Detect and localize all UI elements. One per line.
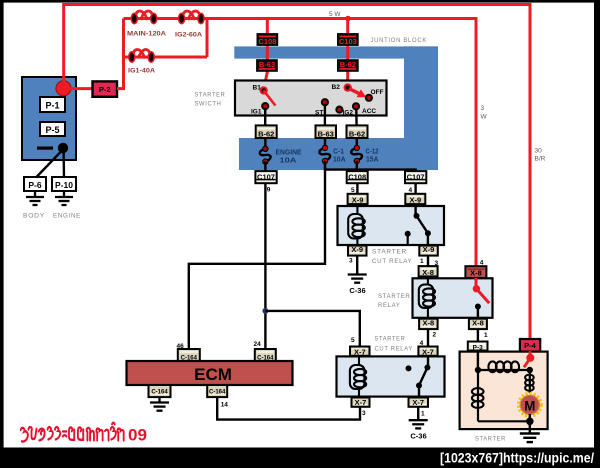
wire IG1 branch horizontal	[124, 56, 208, 59]
svg-text:X-9: X-9	[351, 245, 363, 254]
connector X-8 red	[465, 266, 486, 278]
svg-text:X-7: X-7	[412, 398, 424, 407]
svg-text:IG2: IG2	[343, 109, 354, 116]
wire battery+ to P-2	[70, 87, 93, 90]
connector P-5	[40, 122, 65, 136]
svg-text:B-63: B-63	[259, 60, 275, 69]
svg-text:1: 1	[484, 332, 488, 339]
svg-text:B-63: B-63	[318, 129, 334, 138]
svg-text:C108: C108	[258, 37, 276, 46]
svg-text:ST: ST	[315, 109, 323, 116]
wire ST to B-63	[324, 105, 326, 126]
wire drop to C108 and B1	[264, 19, 268, 91]
connector B-62 acc	[347, 125, 368, 138]
wire X-8 red to relay2 contact	[475, 278, 478, 289]
svg-text:C103: C103	[339, 37, 357, 46]
connector P-1	[40, 97, 65, 112]
ground C-36 relay3	[409, 420, 428, 428]
connector X-9 coil bottom	[348, 245, 367, 255]
svg-text:C107: C107	[407, 172, 425, 181]
connector P-10	[52, 177, 76, 191]
svg-text:STARTER: STARTER	[475, 436, 506, 443]
node battery positive terminal	[56, 81, 71, 96]
connector C108 top	[257, 34, 278, 46]
wire M to ground	[529, 414, 531, 434]
connector B-62 red	[338, 60, 359, 72]
svg-text:P-10: P-10	[55, 180, 73, 190]
relay 2 switch red blade	[476, 289, 489, 303]
junction block bus top band	[234, 46, 438, 58]
fuse C-1 10A	[319, 145, 330, 164]
svg-text:X-9: X-9	[409, 196, 421, 205]
svg-text:X-8: X-8	[422, 319, 434, 328]
svg-text:W: W	[481, 114, 488, 121]
fusible link MAIN-120A	[131, 11, 157, 24]
svg-text:IG1: IG1	[251, 108, 262, 115]
wire junction to X-7 pin5	[265, 311, 359, 347]
svg-text:1: 1	[420, 258, 424, 265]
connector X-8 switch bottom	[469, 319, 487, 330]
svg-text:STARTER: STARTER	[195, 92, 226, 99]
svg-text:C-164: C-164	[151, 389, 168, 395]
battery block	[22, 77, 76, 160]
svg-text:ACC: ACC	[362, 108, 376, 115]
svg-text:3: 3	[481, 105, 485, 112]
svg-text:X-8: X-8	[472, 319, 484, 328]
relay 2 coil	[419, 278, 435, 319]
wire relay1 blade to X-9	[427, 233, 429, 247]
wire C108 to X-9	[356, 183, 358, 194]
svg-text:5 W: 5 W	[329, 11, 341, 18]
wire top feed horizontal 30 B/R	[62, 3, 531, 6]
connector P-4	[520, 339, 540, 352]
ECM body	[127, 361, 293, 385]
connector C-164 pin24	[255, 349, 276, 362]
connector B-63	[316, 125, 337, 138]
border frame right	[594, 0, 600, 468]
junction block bus bottom band	[239, 138, 438, 170]
svg-text:BODY: BODY	[23, 213, 45, 220]
svg-text:STARTER: STARTER	[375, 336, 406, 343]
svg-text:B-62: B-62	[340, 60, 356, 69]
svg-text:10A: 10A	[280, 158, 297, 165]
connector C-164 pin14	[207, 385, 227, 397]
svg-text:4: 4	[480, 260, 484, 267]
wire X-7 to ground C-36 relay3	[417, 407, 419, 420]
svg-text:[1023x767]https://upic.me/: [1023x767]https://upic.me/	[440, 450, 594, 466]
wire battery+ vertical	[62, 5, 65, 84]
svg-text:09: 09	[128, 426, 147, 445]
svg-text:14: 14	[221, 402, 229, 409]
connector X-7 coil bottom	[352, 398, 370, 407]
wire fused feed horizontal 5 W	[124, 17, 478, 20]
wire negative to P-6	[36, 152, 61, 178]
wire C-1 tap to C107 right	[325, 161, 416, 172]
connector B-62 engine fuse	[256, 125, 277, 138]
svg-text:MAIN-120A: MAIN-120A	[127, 31, 166, 38]
wire 30 B/R down to P-4	[529, 5, 532, 342]
svg-text:P-3: P-3	[473, 344, 484, 351]
battery minus mark	[37, 147, 53, 150]
wire X-9 to ground C-36	[356, 256, 358, 274]
wire C-1 to ECM pin46	[189, 161, 325, 350]
node terminal ST	[322, 99, 328, 105]
relay 1 switch	[405, 204, 431, 245]
wire relay3 blade to X-7	[418, 386, 420, 399]
svg-text:24: 24	[254, 341, 262, 348]
connector X-8 khaki top	[419, 266, 438, 277]
switch arrow B2 to OFF	[349, 89, 360, 94]
svg-text:X-8: X-8	[470, 269, 482, 278]
svg-text:2: 2	[433, 332, 437, 339]
connector P-2	[93, 81, 118, 96]
relay 3 switch	[406, 356, 431, 389]
svg-text:P-2: P-2	[99, 85, 111, 94]
connector C108 mid	[347, 171, 368, 183]
svg-text:CUT RELAY: CUT RELAY	[372, 258, 413, 265]
wire P-2 to fuse line	[117, 19, 124, 89]
connector B-63 red	[257, 60, 278, 72]
starter hold-in coil horizontal	[478, 361, 530, 372]
svg-text:P-1: P-1	[45, 101, 59, 111]
switch blade B1-IG1	[264, 90, 276, 105]
connector C-164 pin46	[178, 349, 200, 362]
connector P-6	[24, 177, 46, 191]
svg-text:P-6: P-6	[28, 180, 42, 190]
connector X-9 switch top	[405, 194, 425, 205]
svg-text:B-62: B-62	[349, 129, 365, 138]
relay 2 switch red contact	[473, 285, 480, 292]
relay starter cut relay 1 body	[338, 206, 445, 245]
fusible link IG1-40A	[129, 50, 155, 63]
node starter left	[475, 367, 481, 373]
svg-text:C-36: C-36	[410, 432, 426, 441]
svg-text:X-9: X-9	[352, 196, 364, 205]
connector C107 right	[405, 171, 426, 183]
svg-text:ENGINE: ENGINE	[276, 150, 302, 157]
fuse ENGINE 10A	[260, 146, 271, 164]
connector X-7 switch top	[418, 347, 437, 357]
svg-text:X-7: X-7	[355, 398, 367, 407]
ground engine	[55, 191, 73, 205]
svg-text:STARTER: STARTER	[378, 293, 411, 300]
svg-text:B2: B2	[332, 84, 341, 91]
wire ACC to B-62	[355, 109, 358, 126]
node battery negative terminal	[58, 143, 68, 153]
svg-text:P-5: P-5	[45, 125, 59, 135]
node junction pin9 branch	[262, 308, 268, 314]
node terminal B1	[260, 87, 266, 93]
wire 3 W down to X-8	[475, 19, 478, 269]
svg-text:IG2-60A: IG2-60A	[175, 32, 202, 39]
motor M	[519, 394, 540, 415]
starter armature coil	[525, 370, 534, 393]
border frame left	[0, 0, 4, 468]
wire relay2 contact to X-8	[477, 307, 479, 320]
ground C-36 relay1	[348, 275, 367, 283]
junction block bus right band	[404, 46, 438, 170]
connector C103 top	[338, 34, 359, 46]
relay starter relay body	[413, 278, 493, 318]
connector C-164 ground	[149, 385, 171, 397]
starter red contact	[524, 351, 534, 367]
svg-text:STARTER: STARTER	[372, 249, 407, 256]
wire B-62 to ENGINE fuse	[264, 138, 266, 148]
starter body	[460, 352, 548, 430]
wire drop to C103 and B2	[346, 19, 349, 89]
wire C107 pin9 down	[264, 183, 266, 349]
svg-text:C-36: C-36	[349, 286, 365, 295]
connector X-7 switch bottom	[409, 398, 429, 407]
svg-text:X-7: X-7	[422, 348, 434, 357]
svg-text:46: 46	[177, 343, 185, 350]
connector X-9 coil top	[348, 194, 368, 205]
connector X-7 coil top	[350, 347, 370, 357]
svg-text:C108: C108	[348, 172, 366, 181]
svg-text:3: 3	[362, 410, 366, 417]
title thai text วงจรระบบสตาร์ต	[21, 423, 124, 442]
watermark bar	[0, 448, 600, 468]
svg-text:C-12: C-12	[366, 149, 379, 156]
connector X-8 coil bottom	[419, 319, 438, 330]
wire IG1 branch up join	[206, 17, 209, 57]
svg-text:CUT RELAY: CUT RELAY	[375, 346, 414, 353]
node starter ground junction	[526, 418, 534, 426]
relay 2 switch lower contact	[475, 304, 481, 310]
svg-text:C-1: C-1	[333, 149, 344, 156]
svg-text:10A: 10A	[333, 157, 346, 164]
svg-text:B-62: B-62	[258, 129, 274, 138]
node terminal IG1	[262, 103, 268, 109]
connector P-3	[468, 342, 488, 352]
fusible link IG2-60A	[179, 11, 205, 24]
svg-text:30: 30	[535, 148, 543, 155]
wire X-9 to X-8 khaki	[427, 256, 429, 267]
svg-text:X-8: X-8	[422, 268, 434, 277]
connector X-9 switch bottom	[419, 245, 438, 255]
relay starter cut relay 2 body	[337, 356, 445, 396]
svg-text:C-164: C-164	[209, 389, 226, 395]
node fuse line junction	[345, 16, 351, 22]
wire ENGINE fuse to C107	[264, 162, 266, 172]
svg-text:P-4: P-4	[524, 341, 537, 350]
svg-text:X-7: X-7	[354, 348, 366, 357]
connector C107 left	[255, 171, 276, 183]
starter bottom wire	[478, 420, 530, 422]
relay 3 coil	[350, 356, 366, 399]
node terminal ACC	[353, 103, 359, 109]
starter pull-in coil vertical	[472, 370, 484, 421]
svg-text:X-9: X-9	[423, 245, 435, 254]
fuse C-12 15A	[351, 145, 362, 164]
svg-text:15A: 15A	[366, 157, 379, 164]
svg-text:IG1-40A: IG1-40A	[128, 68, 155, 75]
svg-text:OFF: OFF	[371, 89, 384, 96]
wire B-63 to C-1 fuse	[324, 138, 326, 148]
wire IG1 to B-62	[264, 109, 266, 126]
wire X-8 to P-3	[477, 329, 479, 342]
svg-text:3: 3	[349, 258, 353, 265]
svg-text:ECM: ECM	[194, 365, 232, 384]
ground ECM	[150, 397, 169, 411]
border frame top	[0, 0, 600, 3]
wire B-62 to C-12 fuse	[356, 138, 358, 148]
svg-text:1: 1	[421, 411, 425, 418]
node terminal IG2	[336, 107, 342, 113]
wire C-12 to C108	[356, 161, 358, 172]
wire X-8 to relay2 coil	[427, 276, 429, 286]
wire pin14 to X-7 pin3	[217, 397, 360, 420]
ground starter	[520, 434, 540, 443]
node starter right	[527, 367, 533, 373]
svg-text:ENGINE: ENGINE	[53, 213, 81, 220]
wire C107 to X-9	[414, 183, 416, 194]
wire X-8 to X-7 pin4	[427, 329, 429, 347]
wire P-3 into starter	[477, 351, 479, 371]
svg-text:B/R: B/R	[535, 156, 546, 163]
relay 1 coil	[348, 204, 365, 247]
svg-text:JUNTION BLOCK: JUNTION BLOCK	[371, 37, 428, 44]
node terminal OFF	[366, 95, 372, 101]
svg-text:C107: C107	[257, 172, 275, 181]
svg-text:RELAY: RELAY	[378, 302, 401, 309]
svg-text:SWICTH: SWICTH	[195, 101, 222, 108]
starter switch body	[235, 81, 387, 116]
svg-text:M: M	[524, 398, 535, 413]
svg-text:5: 5	[351, 337, 355, 344]
wire negative to P-10	[62, 152, 65, 178]
ground body	[26, 191, 44, 205]
svg-text:9: 9	[267, 187, 271, 194]
node terminal B2	[345, 84, 351, 90]
